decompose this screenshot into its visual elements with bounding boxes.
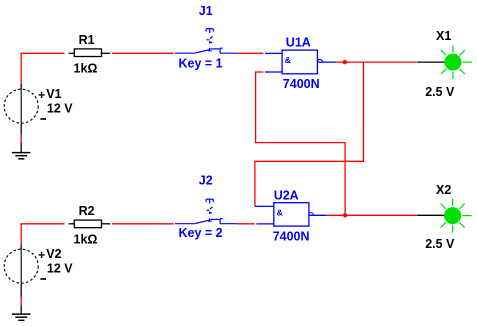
svg-text:Key = 1: Key = 1 <box>179 56 223 70</box>
wire V2 to R2 (row 2 corner) <box>21 224 64 245</box>
wire J2 to U2A <box>237 223 254 225</box>
wire black lead to X2 <box>417 214 444 216</box>
svg-text:2.5 V: 2.5 V <box>425 85 455 99</box>
svg-text:12 V: 12 V <box>47 101 73 115</box>
svg-text:Key = 2: Key = 2 <box>179 226 223 240</box>
svg-text:7400N: 7400N <box>283 77 320 91</box>
ground (V1) <box>12 153 31 159</box>
svg-text:X2: X2 <box>436 183 451 197</box>
wire U2A top input pin (blue) <box>255 205 274 207</box>
wire V2 to ground <box>20 283 22 314</box>
svg-text:V2: V2 <box>46 247 61 261</box>
svg-text:X1: X1 <box>436 29 451 43</box>
op-amp U2A (7400N NAND) <box>256 203 326 226</box>
wire V1 to R1 (top-left corner) <box>21 53 64 84</box>
node junction at U2A output <box>343 213 347 217</box>
node junction at U1A output <box>343 60 347 64</box>
svg-text:1kΩ: 1kΩ <box>74 61 98 75</box>
lamp X2 <box>441 199 472 233</box>
svg-text:V1: V1 <box>46 87 61 101</box>
voltage source V2 <box>4 244 46 283</box>
svg-text:1kΩ: 1kΩ <box>74 233 98 247</box>
svg-text:&: & <box>285 55 291 65</box>
lamp X1 <box>441 45 472 79</box>
wire U1A output to X1 <box>336 61 418 63</box>
wire U2A output to X2 <box>327 214 418 216</box>
wire R2 to J2 <box>112 223 174 225</box>
voltage source V1 <box>4 84 46 123</box>
switch J2 <box>175 199 237 224</box>
resistor R1 <box>69 49 111 57</box>
svg-text:7400N: 7400N <box>273 229 310 243</box>
svg-text:U2A: U2A <box>274 188 299 202</box>
op-amp U1A (7400N NAND) <box>265 50 336 74</box>
svg-text:R2: R2 <box>79 204 95 218</box>
wire R1 to J1 <box>112 52 174 54</box>
wire feedback U2A out to U1A pin 2 (up, left, up) <box>256 72 346 215</box>
ground (V2) <box>12 314 31 320</box>
resistor R2 <box>69 220 111 228</box>
svg-text:J2: J2 <box>199 173 213 187</box>
svg-text:J1: J1 <box>199 4 213 18</box>
svg-text:&: & <box>277 208 283 218</box>
svg-text:U1A: U1A <box>286 36 311 50</box>
svg-text:12 V: 12 V <box>47 261 73 275</box>
wire feedback U1A out to U2A pin (tap, down, left, down) <box>255 62 364 206</box>
svg-text:R1: R1 <box>79 33 95 47</box>
wire black lead to X1 <box>418 61 445 63</box>
wire J1 to U1A pin 1 <box>237 52 263 54</box>
wire V1 to ground <box>20 123 22 152</box>
svg-text:2.5 V: 2.5 V <box>425 237 455 251</box>
switch J1 <box>175 29 237 54</box>
